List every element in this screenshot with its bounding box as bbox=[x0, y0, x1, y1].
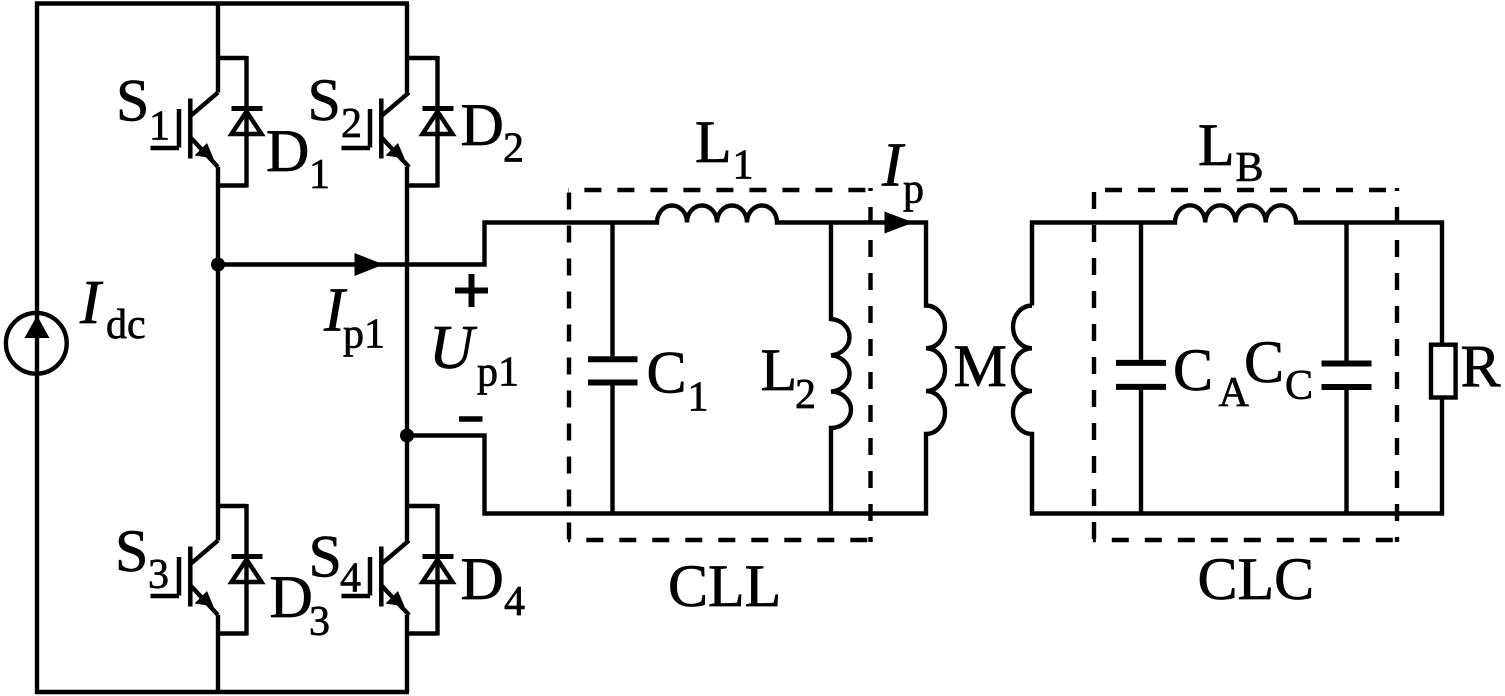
svg-text:D: D bbox=[266, 118, 309, 184]
svg-text:2: 2 bbox=[503, 126, 524, 172]
svg-text:C: C bbox=[647, 340, 687, 406]
svg-text:U: U bbox=[429, 314, 478, 382]
svg-text:1: 1 bbox=[733, 143, 754, 189]
svg-text:p1: p1 bbox=[477, 350, 519, 396]
svg-text:S: S bbox=[308, 67, 341, 133]
svg-text:S: S bbox=[115, 518, 148, 584]
svg-text:1: 1 bbox=[688, 375, 709, 421]
svg-text:D: D bbox=[461, 92, 504, 158]
svg-text:3: 3 bbox=[148, 552, 169, 598]
svg-text:CLL: CLL bbox=[668, 553, 781, 619]
svg-text:R: R bbox=[1461, 334, 1501, 400]
svg-text:p: p bbox=[903, 167, 924, 213]
svg-text:CLC: CLC bbox=[1198, 546, 1315, 612]
svg-text:C: C bbox=[1244, 329, 1284, 395]
svg-text:2: 2 bbox=[341, 101, 362, 147]
svg-text:D: D bbox=[461, 546, 504, 612]
svg-text:M: M bbox=[954, 333, 1007, 399]
svg-text:C: C bbox=[1285, 363, 1313, 409]
svg-text:1: 1 bbox=[149, 104, 170, 150]
svg-text:1: 1 bbox=[309, 152, 330, 198]
svg-text:L: L bbox=[695, 109, 732, 175]
svg-text:p1: p1 bbox=[343, 312, 385, 358]
svg-text:B: B bbox=[1236, 145, 1264, 191]
svg-text:4: 4 bbox=[504, 579, 525, 625]
svg-text:I: I bbox=[79, 269, 104, 337]
svg-text:S: S bbox=[116, 68, 149, 134]
svg-text:2: 2 bbox=[795, 372, 816, 418]
svg-text:C: C bbox=[1173, 337, 1213, 403]
svg-text:L: L bbox=[761, 337, 798, 403]
svg-text:S: S bbox=[309, 524, 342, 590]
svg-text:dc: dc bbox=[106, 302, 146, 348]
svg-text:L: L bbox=[1198, 112, 1235, 178]
svg-text:3: 3 bbox=[309, 599, 330, 645]
svg-text:D: D bbox=[270, 564, 313, 630]
svg-text:4: 4 bbox=[340, 556, 361, 602]
